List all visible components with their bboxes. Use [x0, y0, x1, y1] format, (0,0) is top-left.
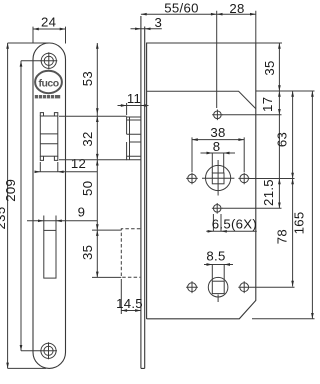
- svg-text:9: 9: [78, 204, 86, 219]
- svg-text:8.5: 8.5: [206, 248, 225, 263]
- svg-text:235: 235: [0, 207, 8, 230]
- svg-text:14.5: 14.5: [116, 296, 143, 311]
- svg-text:35: 35: [80, 245, 95, 260]
- svg-text:12: 12: [71, 156, 86, 171]
- svg-text:209: 209: [3, 179, 18, 202]
- svg-text:8: 8: [213, 139, 221, 154]
- svg-text:24: 24: [41, 15, 56, 30]
- svg-text:165: 165: [291, 211, 306, 234]
- svg-text:32: 32: [80, 131, 95, 146]
- svg-text:53: 53: [80, 71, 95, 86]
- svg-text:50: 50: [80, 181, 95, 196]
- svg-text:63: 63: [275, 132, 290, 147]
- svg-text:35: 35: [262, 60, 277, 75]
- svg-text:28: 28: [229, 1, 244, 16]
- svg-text:78: 78: [274, 229, 289, 244]
- svg-text:21.5: 21.5: [261, 179, 276, 206]
- svg-text:3: 3: [154, 15, 162, 30]
- svg-text:6.5(6X): 6.5(6X): [212, 216, 257, 231]
- svg-text:17: 17: [260, 97, 275, 112]
- svg-text:fuco: fuco: [39, 78, 59, 90]
- svg-text:38: 38: [210, 125, 225, 140]
- svg-text:55/60: 55/60: [164, 1, 199, 16]
- svg-text:11: 11: [127, 91, 141, 106]
